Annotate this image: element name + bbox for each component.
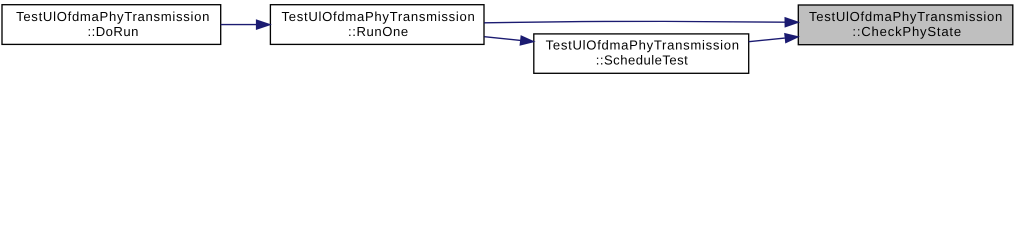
wire ScheduleTest->CheckPhyState (749, 34, 799, 43)
svg-text:::CheckPhyState: ::CheckPhyState (852, 24, 962, 39)
node TestUlOfdmaPhyTransmission::ScheduleTest (534, 34, 749, 73)
node TestUlOfdmaPhyTransmission::DoRun (2, 5, 221, 45)
wire RunOne->ScheduleTest (484, 36, 534, 45)
svg-text:::ScheduleTest: ::ScheduleTest (596, 53, 688, 68)
svg-text:TestUlOfdmaPhyTransmission: TestUlOfdmaPhyTransmission (281, 9, 475, 24)
node TestUlOfdmaPhyTransmission::RunOne (270, 5, 484, 45)
svg-text:::RunOne: ::RunOne (348, 24, 409, 39)
svg-text:TestUlOfdmaPhyTransmission: TestUlOfdmaPhyTransmission (809, 9, 1003, 24)
svg-text:::DoRun: ::DoRun (87, 24, 138, 39)
svg-text:TestUlOfdmaPhyTransmission: TestUlOfdmaPhyTransmission (546, 38, 740, 53)
node TestUlOfdmaPhyTransmission::CheckPhyState (current, gray) (798, 5, 1013, 45)
svg-text:TestUlOfdmaPhyTransmission: TestUlOfdmaPhyTransmission (16, 9, 210, 24)
wire DoRun->RunOne (221, 20, 271, 29)
wire RunOne->CheckPhyState (484, 18, 798, 27)
